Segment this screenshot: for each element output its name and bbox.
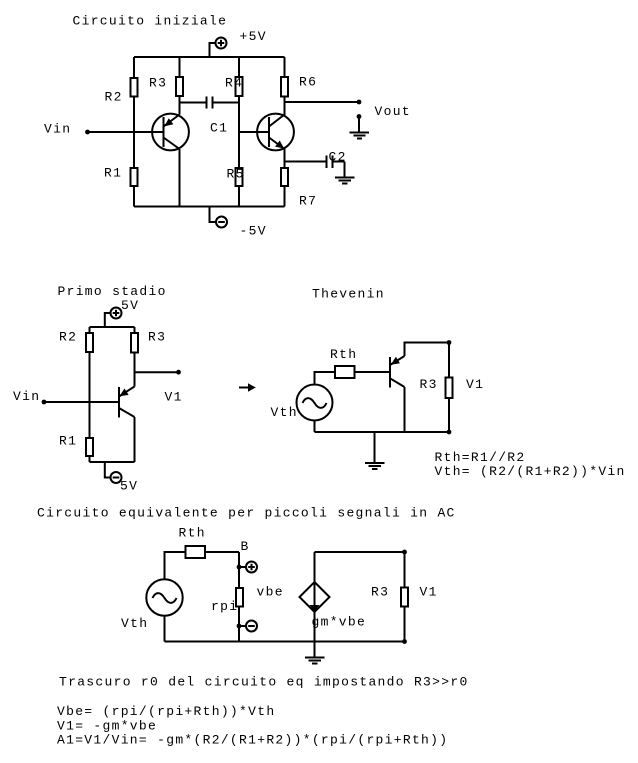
svg-text:R2: R2 xyxy=(105,90,123,105)
svg-text:V1: V1 xyxy=(165,390,183,405)
svg-text:Vin: Vin xyxy=(44,122,71,137)
wire right column upper primo xyxy=(134,327,136,387)
resistor R5 xyxy=(227,167,245,187)
resistor R7 xyxy=(281,168,317,209)
wire top rail primo xyxy=(90,326,135,328)
svg-text:Vth: Vth xyxy=(271,405,298,420)
svg-text:Vout: Vout xyxy=(375,104,411,119)
supply +5V xyxy=(210,29,267,57)
ground AC xyxy=(305,642,325,664)
resistor R4 xyxy=(225,76,243,97)
arrow between circuits xyxy=(239,383,256,391)
supply -5V xyxy=(210,207,267,239)
node Vin xyxy=(44,122,90,137)
supply -5V primo xyxy=(105,462,138,494)
wire Vout xyxy=(285,100,411,119)
svg-text:Rth=R1//R2: Rth=R1//R2 xyxy=(435,450,526,465)
ground thevenin xyxy=(365,432,385,469)
svg-text:Trascuro r0 del circuito eq im: Trascuro r0 del circuito eq impostando R… xyxy=(59,675,469,690)
svg-text:B: B xyxy=(241,539,250,554)
svg-text:Vth: Vth xyxy=(121,616,148,631)
transistor Q1 xyxy=(152,114,189,151)
svg-text:-5V: -5V xyxy=(240,224,267,239)
wire Q2 base xyxy=(239,131,269,133)
svg-text:Circuito iniziale: Circuito iniziale xyxy=(73,14,228,29)
resistor rpi xyxy=(211,588,243,614)
svg-text:R2: R2 xyxy=(59,330,77,345)
resistor R3 thevenin xyxy=(420,343,485,435)
supply +5V primo xyxy=(105,298,139,327)
svg-text:R5: R5 xyxy=(227,167,245,182)
svg-text:Vth= (R2/(R1+R2))*Vin: Vth= (R2/(R1+R2))*Vin xyxy=(435,464,626,479)
svg-text:R3: R3 xyxy=(148,330,166,345)
transistor thevenin xyxy=(390,356,405,388)
wire Rth to base xyxy=(355,371,391,373)
wire column3 xyxy=(238,57,240,207)
source Vth AC xyxy=(121,579,183,631)
wire source top to Rth xyxy=(315,372,336,385)
wire bottom rail circuit1 xyxy=(134,206,285,208)
resistor Rth AC xyxy=(179,526,206,559)
resistor Rth thevenin xyxy=(330,347,357,378)
resistor R6 xyxy=(281,75,317,97)
node Vin primo xyxy=(13,389,46,404)
resistor R3 xyxy=(149,76,183,97)
svg-text:vbe: vbe xyxy=(257,585,284,600)
wire Vin to Q1 base xyxy=(88,131,164,133)
svg-text:R6: R6 xyxy=(299,75,317,90)
svg-text:C1: C1 xyxy=(210,121,228,136)
resistor R1 primo xyxy=(59,434,93,457)
capacitor C1 xyxy=(180,97,240,136)
resistor R3 AC xyxy=(371,552,438,644)
svg-text:R1: R1 xyxy=(104,166,122,181)
svg-text:Vbe= (rpi/(rpi+Rth))*Vth: Vbe= (rpi/(rpi+Rth))*Vth xyxy=(57,704,275,719)
node V1 primo xyxy=(135,370,183,405)
wire Vin to base primo xyxy=(44,401,119,403)
transistor Q2 xyxy=(257,114,294,151)
wire collector top thevenin xyxy=(405,340,452,356)
wire right column lower primo xyxy=(134,417,136,462)
wire column2 upper xyxy=(179,57,181,115)
wire bottom rail AC xyxy=(165,616,405,642)
svg-text:R3: R3 xyxy=(420,377,438,392)
transistor primo xyxy=(119,387,135,418)
svg-text:Circuito equivalente per picco: Circuito equivalente per piccoli segnali… xyxy=(37,506,456,521)
wire column4 lower xyxy=(284,148,286,207)
resistor R1 xyxy=(104,166,138,187)
svg-text:A1=V1/Vin= -gm*(R2/(R1+R2))*(r: A1=V1/Vin= -gm*(R2/(R1+R2))*(rpi/(rpi+Rt… xyxy=(57,733,448,748)
capacitor C2 xyxy=(285,150,347,169)
terminal vbe minus xyxy=(237,621,257,632)
svg-text:Thevenin: Thevenin xyxy=(312,287,385,302)
svg-text:R3: R3 xyxy=(371,585,389,600)
svg-text:Rth: Rth xyxy=(179,526,206,541)
wire column2 lower xyxy=(179,149,181,207)
resistor R2 xyxy=(105,78,138,105)
wire top rail circuit1 xyxy=(134,56,285,58)
svg-text:Rth: Rth xyxy=(330,347,357,362)
ground at C2 xyxy=(335,162,355,184)
svg-text:Vin: Vin xyxy=(13,389,40,404)
svg-text:5V: 5V xyxy=(120,479,138,494)
wire Rth to node B xyxy=(205,539,250,554)
svg-text:R3: R3 xyxy=(149,76,167,91)
svg-text:R1: R1 xyxy=(59,434,77,449)
wire rpi column xyxy=(238,552,240,642)
dependent source gm*vbe xyxy=(300,552,367,642)
svg-text:5V: 5V xyxy=(121,298,139,313)
source Vth thevenin xyxy=(271,385,333,421)
svg-text:V1: V1 xyxy=(420,585,438,600)
wire left column primo xyxy=(89,327,91,462)
wire bottom rail primo xyxy=(90,461,135,463)
wire bottom rail thevenin xyxy=(315,421,450,433)
ground at Vout xyxy=(350,114,370,138)
wire column4 upper xyxy=(284,57,286,116)
svg-text:R7: R7 xyxy=(299,194,317,209)
svg-text:R4: R4 xyxy=(225,76,243,91)
svg-text:rpi: rpi xyxy=(211,599,238,614)
terminal vbe plus xyxy=(237,562,257,573)
wire column1 xyxy=(133,57,135,207)
svg-text:Primo stadio: Primo stadio xyxy=(58,284,167,299)
svg-text:gm*vbe: gm*vbe xyxy=(312,615,367,630)
wire top right rail AC xyxy=(315,550,407,555)
resistor R2 primo xyxy=(59,330,93,353)
resistor R3 primo xyxy=(131,330,166,353)
svg-text:V1: V1 xyxy=(466,377,484,392)
svg-text:+5V: +5V xyxy=(240,29,267,44)
svg-text:V1= -gm*vbe: V1= -gm*vbe xyxy=(57,719,157,734)
wire source top to Rth AC xyxy=(165,552,186,579)
wire emitter down thevenin xyxy=(404,387,406,432)
